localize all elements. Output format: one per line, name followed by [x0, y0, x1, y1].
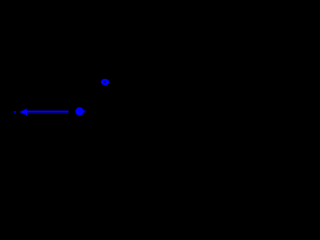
- wire top vertical: [102, 0, 104, 78]
- wire middle horizontal: [80, 89, 113, 91]
- current arrow I1: [14, 109, 69, 116]
- wire right vertical: [112, 90, 114, 117]
- wire left vertical: [79, 90, 81, 108]
- node A junction dot: [75, 107, 84, 115]
- terminal ring T1: [101, 79, 109, 85]
- wire bottom horizontal: [113, 116, 151, 118]
